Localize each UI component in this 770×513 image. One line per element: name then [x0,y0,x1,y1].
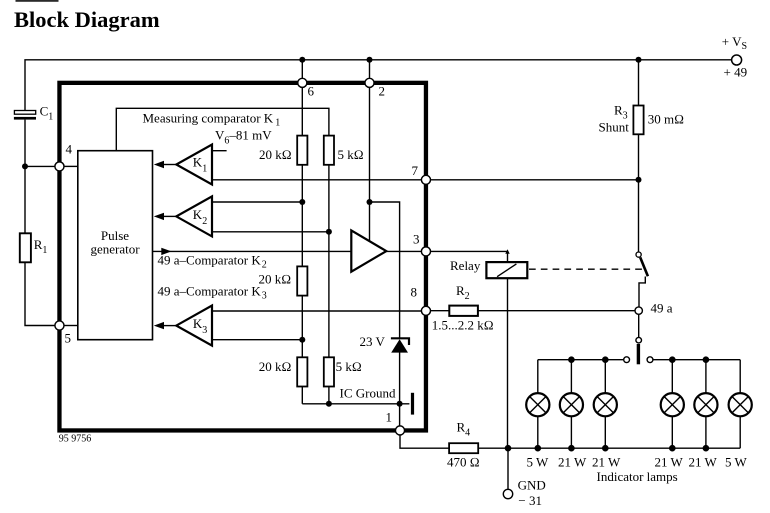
wire R1 to pin 5 [25,262,55,325]
resistor 5k top [324,136,334,165]
lamp L6 5W [729,360,752,449]
wire node7 to switch [638,180,640,252]
wire K1 ref stub [212,150,227,152]
wire bottom rail [478,447,740,449]
wire pin 2 stub [369,60,371,79]
resistor R4 [449,443,478,453]
zener diode 23V [391,338,409,345]
svg-text:20 kΩ: 20 kΩ [259,147,292,162]
wire node A to pin 4 [25,165,55,167]
svg-text:generator: generator [90,241,140,256]
svg-text:Shunt: Shunt [599,120,630,135]
wire K3 output arrow [163,325,176,327]
svg-text:+ VS: + VS [722,34,747,52]
wire op-amp to pin 3 [386,250,421,252]
svg-text:470 Ω: 470 Ω [447,455,480,470]
wire pin 7 external [430,179,638,181]
svg-text:GND: GND [518,477,546,492]
wire K1 input from pin 7 [212,179,422,181]
svg-text:8: 8 [411,285,418,300]
wire pin 6 stub [301,60,303,79]
resistor 20k bottom [297,357,307,386]
svg-text:49 a–Comparator K3: 49 a–Comparator K3 [158,284,267,302]
svg-text:5 W: 5 W [527,455,550,470]
svg-text:5 W: 5 W [725,455,748,470]
lamp L2 21W [560,360,583,449]
comparator K1 [176,145,212,185]
wire pin 4 to pulse generator [64,165,78,167]
svg-text:6: 6 [308,84,315,99]
wire K3 input lower to 20k column [212,339,302,341]
wire K2 output arrow [163,215,176,217]
svg-text:49 a–Comparator K2: 49 a–Comparator K2 [158,253,267,271]
svg-text:R1: R1 [34,237,48,256]
wire 5k column [328,165,330,357]
svg-text:Relay: Relay [450,258,481,273]
svg-text:5: 5 [65,331,72,346]
pin 2 [365,78,374,87]
capacitor C1 [14,111,35,115]
svg-text:20 kΩ: 20 kΩ [259,271,292,286]
svg-text:7: 7 [412,163,419,178]
wire K2 input upper to 20k column [212,201,302,203]
resistor R2 [449,306,478,316]
comparator K3 [176,306,212,346]
wire K2 input lower to 5k column [212,231,329,233]
svg-text:− 31: − 31 [518,493,542,508]
lamp switch blade [637,344,640,364]
wire measuring comparator feedback [116,108,329,150]
lamp L5 21W [694,360,717,449]
svg-text:R4: R4 [457,420,471,439]
svg-text:Block Diagram: Block Diagram [14,7,160,32]
svg-text:V6–81 mV: V6–81 mV [215,128,272,147]
wire pin 8 to R2 [431,310,450,312]
svg-text:C1: C1 [40,104,54,123]
svg-text:30 mΩ: 30 mΩ [648,112,684,127]
wire node supply-R3 [636,57,642,63]
lamp switch pivot [636,337,642,343]
svg-text:21 W: 21 W [655,455,684,470]
pin 5 [55,321,64,330]
svg-text:21 W: 21 W [689,455,718,470]
svg-text:R2: R2 [456,283,470,302]
wire K1 output arrow [163,164,176,166]
node 7-R3 [636,177,642,183]
wire R2 to 49a [478,310,635,312]
terminal GND [503,489,512,498]
wire K3 input upper from pin 8 [212,310,421,312]
svg-text:23 V: 23 V [360,334,386,349]
IC outline U1 [59,83,426,431]
svg-text:5 kΩ: 5 kΩ [338,147,364,162]
wire 20k column lower [301,296,303,358]
svg-text:21 W: 21 W [558,455,587,470]
IC ground symbol [411,393,414,415]
wire GND drop [507,448,509,489]
pin 4 [55,162,64,171]
wire pin2 column [369,87,371,242]
relay coil [486,262,527,278]
svg-text:4: 4 [66,142,73,157]
node supply-6 [299,57,305,63]
contact left [624,357,630,363]
resistor 5k bottom [324,357,334,386]
dashed link relay to switch [529,268,646,270]
wire pin 3 to relay [430,250,507,252]
pin 8 [421,306,430,315]
switch pivot [636,252,641,257]
pulse generator block [78,151,153,340]
contact right [647,357,653,363]
svg-text:Indicator lamps: Indicator lamps [597,469,678,484]
svg-text:2: 2 [379,84,386,99]
node A junction [22,163,28,169]
wire pin 1 to R4 [400,435,449,448]
svg-text:1.5...2.2 kΩ: 1.5...2.2 kΩ [432,317,494,332]
wire relay to bottom rail [507,278,509,448]
svg-text:95 9756: 95 9756 [59,433,92,444]
lamp L1 5W [526,360,549,449]
svg-text:3: 3 [413,232,420,247]
pin 3 [421,247,430,256]
svg-text:1: 1 [386,410,393,425]
svg-text:+ 49: + 49 [724,65,748,80]
wire ground to pin 1 [399,404,401,426]
wire switch contact step [639,277,645,307]
comparator output line to op-amp [153,250,352,252]
lamp L4 21W [661,360,684,449]
comparator K2 [176,196,212,236]
switch lever [640,257,648,276]
svg-text:49 a: 49 a [651,300,673,315]
resistor R3 shunt [633,106,643,135]
wire ground rail [301,387,303,404]
lamp rail right [653,359,740,361]
terminal +Vs [732,55,742,65]
pin 1 [395,426,404,435]
lamp rail left [538,359,623,361]
svg-text:IC Ground: IC Ground [340,386,396,401]
wire C1 to node A [24,120,26,167]
terminal 49a [635,307,642,314]
wire 20k column mid [301,165,303,267]
pin 7 [421,175,430,184]
wire node A to R1 [24,166,26,233]
lamp L3 21W [594,360,617,449]
svg-text:5 kΩ: 5 kΩ [336,359,362,374]
wire R3 to node7 [638,134,640,180]
svg-text:Measuring comparator K1: Measuring comparator K1 [143,110,281,128]
op-amp buffer [351,230,386,271]
svg-text:21 W: 21 W [592,455,621,470]
resistor 20k top [301,87,303,135]
node supply-2 [367,57,373,63]
svg-text:20 kΩ: 20 kΩ [259,359,292,374]
wire zener to ground rail [399,352,401,403]
wire pin2 branch to zener [370,202,400,339]
wire pin 5 to pulse generator [64,325,78,327]
resistor 20k middle [297,266,307,295]
resistor R1 [20,233,31,262]
pin 6 [298,78,307,87]
wire 49a to lamp switch [638,314,640,337]
cut-off text fragment top edge [16,0,59,2]
wire supply top [25,60,732,111]
